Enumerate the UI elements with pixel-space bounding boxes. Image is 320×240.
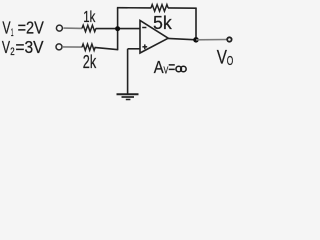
svg-text:V: V — [217, 47, 227, 68]
svg-text:=2V: =2V — [18, 18, 44, 38]
label Av=infinity — [154, 57, 186, 77]
wire (output from apex) — [168, 38, 196, 39]
svg-text:1k: 1k — [83, 9, 96, 26]
wire (feedback top right) — [168, 7, 197, 9]
input terminal 1 — [56, 25, 62, 31]
svg-text:A: A — [154, 57, 164, 77]
svg-text:2k: 2k — [83, 52, 97, 72]
wire (feedback top left) — [117, 7, 151, 9]
svg-text:O: O — [227, 54, 234, 68]
wire — [96, 28, 140, 30]
resistor R2 2k — [82, 44, 95, 50]
wire — [95, 47, 119, 49]
resistor RF 5k — [151, 5, 168, 12]
svg-text:=: = — [168, 57, 175, 77]
node A (inverting input junction) — [115, 26, 120, 31]
wire (non-inverting stub) — [128, 48, 140, 50]
output terminal — [227, 37, 231, 41]
svg-text:=3V: =3V — [15, 37, 43, 57]
wire — [63, 27, 82, 29]
op-amp U1 — [140, 20, 168, 53]
svg-text:2: 2 — [10, 46, 14, 58]
pin label plus — [142, 44, 147, 49]
svg-text:V: V — [2, 18, 10, 38]
label V2=3V — [2, 37, 44, 58]
node B (output junction) — [193, 37, 199, 43]
wire (ground drop) — [127, 49, 129, 94]
svg-text:1: 1 — [11, 27, 14, 39]
label V1=2V — [2, 18, 44, 39]
label Vo — [217, 47, 234, 68]
input terminal 2 — [56, 44, 62, 50]
wire — [63, 46, 82, 48]
svg-text:V: V — [2, 37, 10, 57]
ground — [117, 94, 139, 99]
wire (feedback right vertical) — [195, 8, 197, 40]
wire (to output terminal) — [196, 39, 227, 41]
resistor R1 1k — [82, 25, 96, 31]
wire (vertical through inverting node) — [117, 8, 119, 50]
pin label minus — [142, 27, 146, 29]
